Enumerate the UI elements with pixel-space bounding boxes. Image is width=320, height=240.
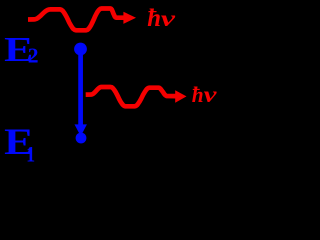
incident photon wavy arrow [28,9,125,31]
incident photon arrowhead [123,12,136,24]
electron at E1 (bottom circle) [76,133,87,144]
svg-text:1: 1 [26,142,35,163]
transition arrowhead [75,124,87,136]
electron at E2 (top circle) [74,43,87,56]
svg-text:ħ: ħ [147,5,161,32]
svg-text:ħ: ħ [192,82,204,107]
emitted photon wavy arrow [86,87,176,106]
emitted photon arrowhead [175,90,186,102]
label E2 [4,30,38,69]
svg-text:2: 2 [28,44,39,68]
transition line [78,52,83,125]
photon label hv top: hbar [147,5,176,32]
label E1 [4,122,35,167]
photon label hv right: hbar [192,82,218,107]
svg-text:ν: ν [161,6,176,31]
svg-text:ν: ν [204,82,218,107]
